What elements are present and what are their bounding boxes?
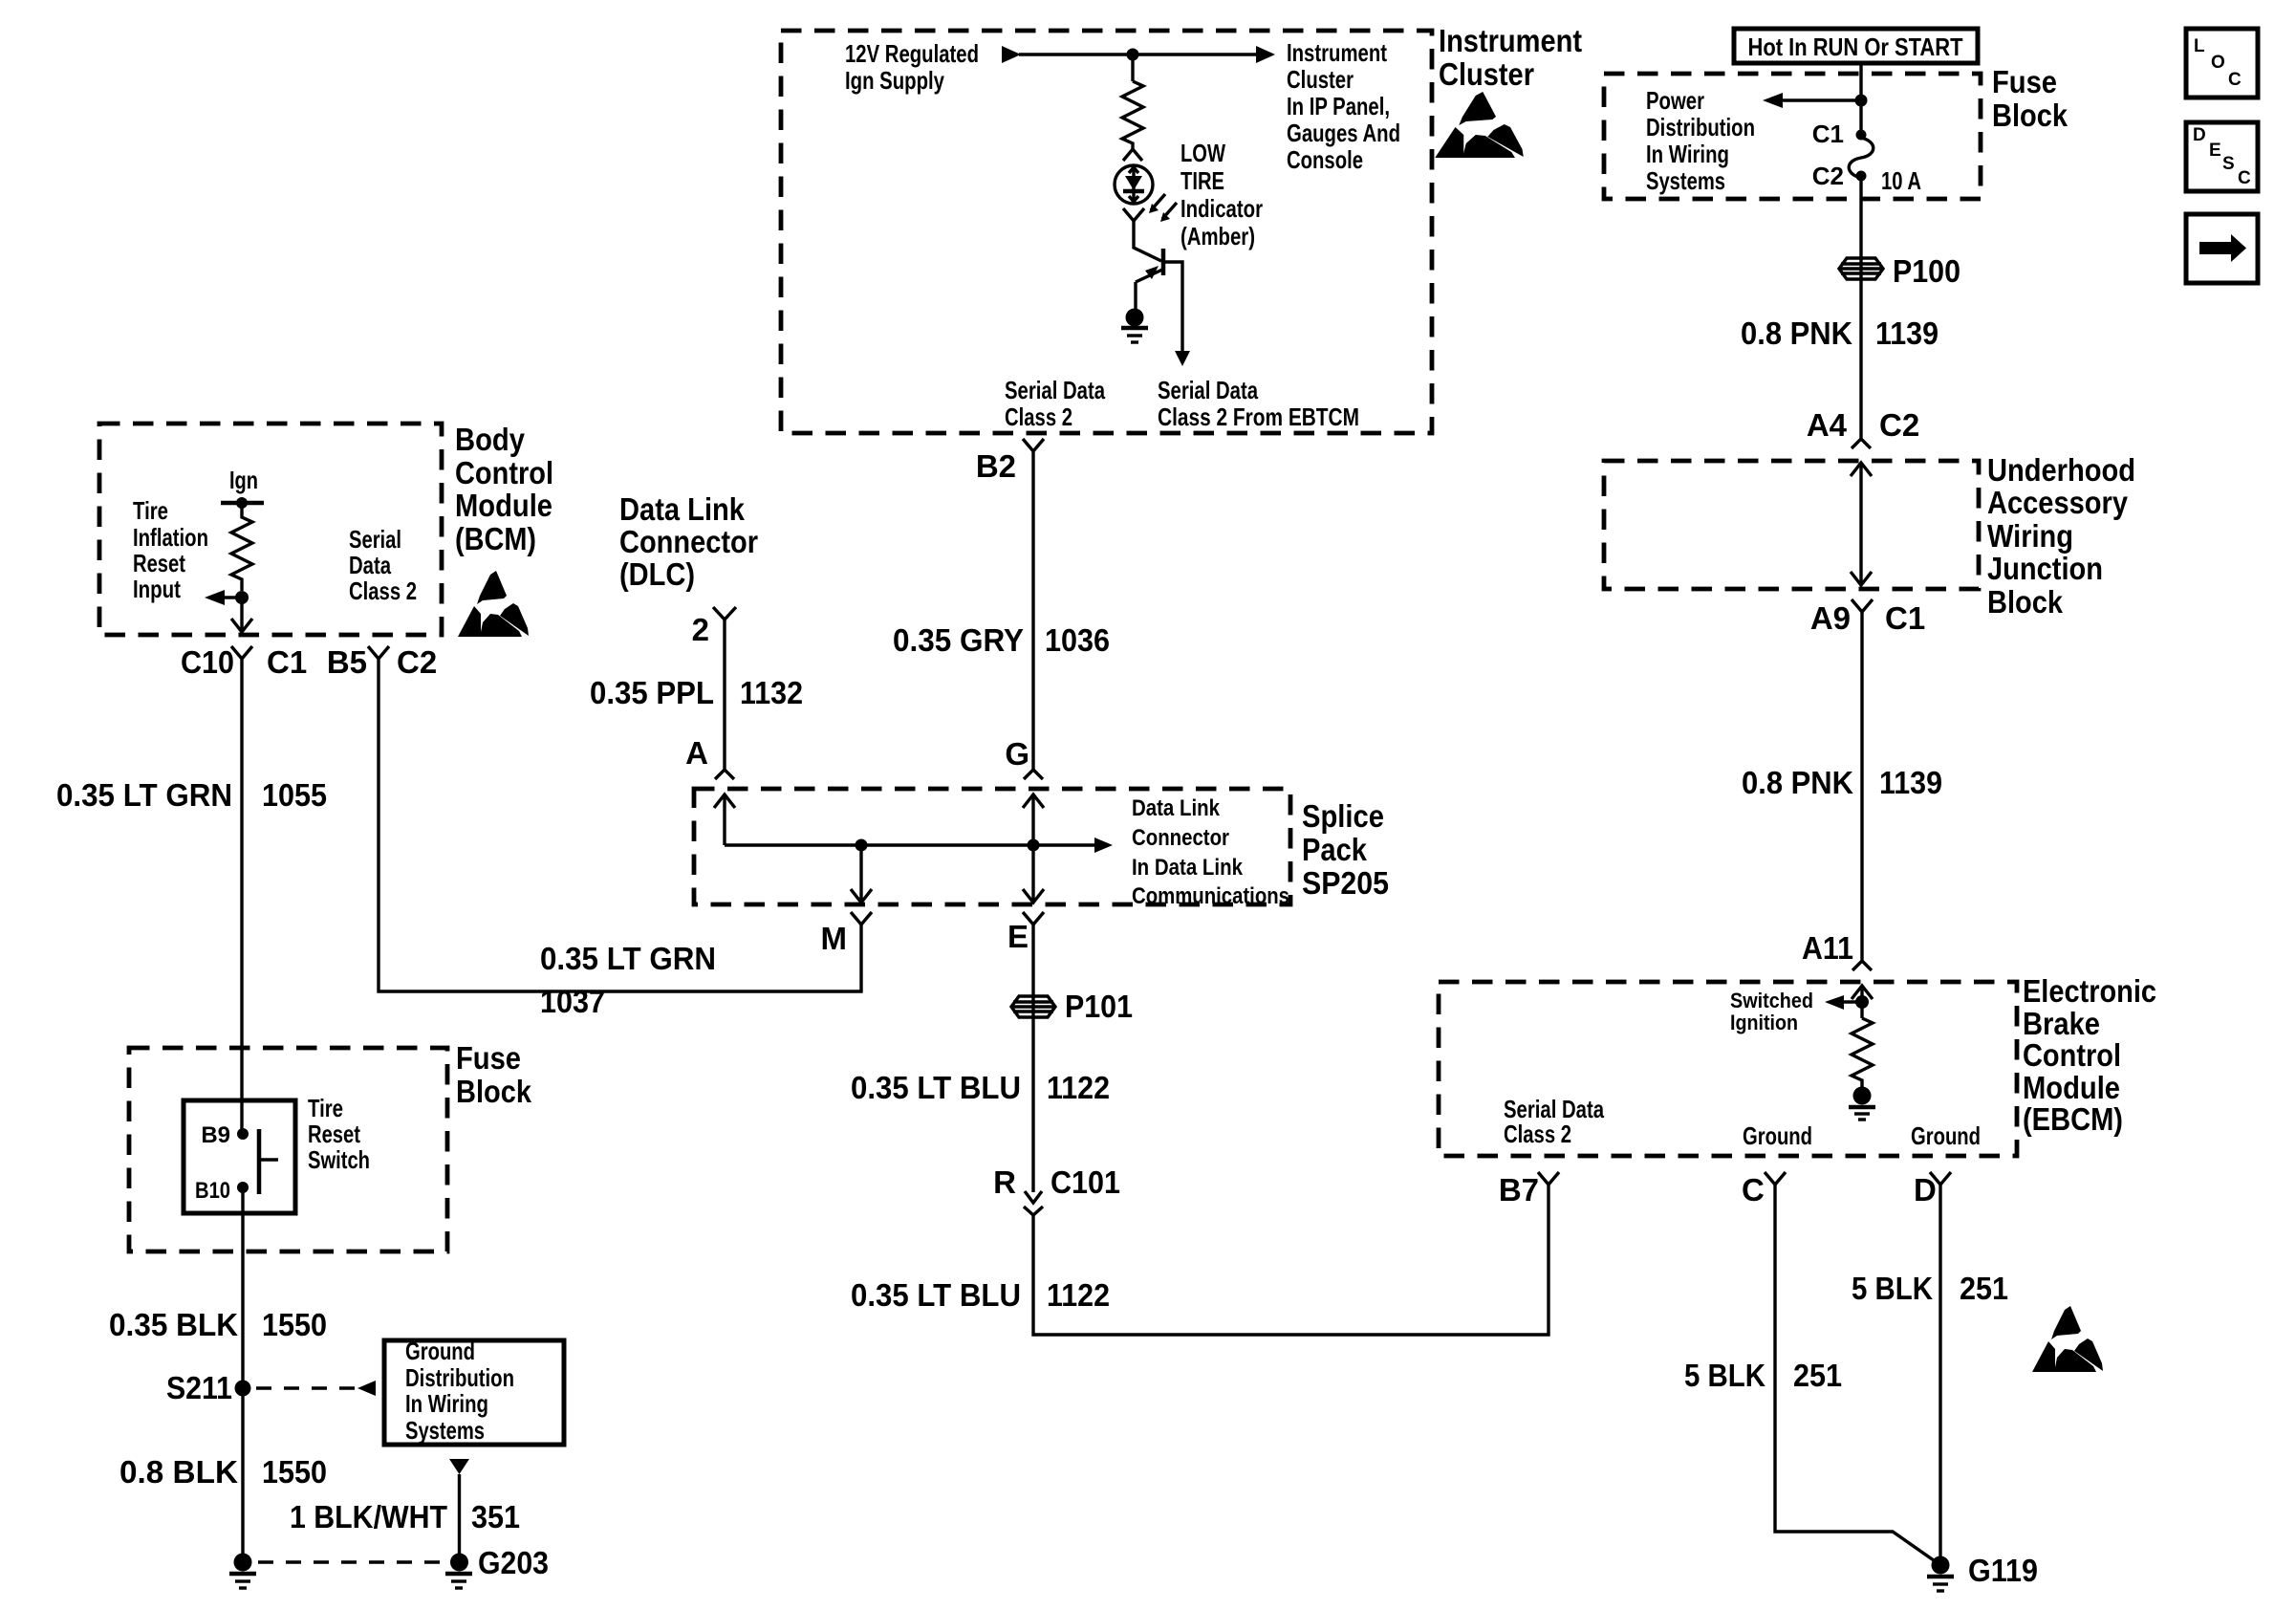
svg-text:1 BLK/WHT: 1 BLK/WHT <box>290 1499 447 1534</box>
wire B10 down to ground <box>241 1187 244 1556</box>
label: 5 BLK 251 (D) <box>1852 1271 2008 1306</box>
node: B10 terminal dot <box>237 1182 249 1193</box>
svg-text:0.35 LT GRN: 0.35 LT GRN <box>56 777 232 813</box>
open arrow up at G inside splice <box>1023 794 1044 903</box>
svg-text:Ign Supply: Ign Supply <box>845 66 944 95</box>
svg-text:P100: P100 <box>1893 253 1960 289</box>
svg-text:Class 2: Class 2 <box>349 577 417 605</box>
svg-text:In Wiring: In Wiring <box>405 1389 488 1418</box>
dashed reference S211 to ground distribution <box>256 1381 376 1396</box>
wire: emitter to ground <box>1134 282 1137 310</box>
svg-text:0.35 LT GRN: 0.35 LT GRN <box>540 941 716 976</box>
label: Data Link Connector (DLC) title <box>619 491 758 592</box>
svg-text:P101: P101 <box>1065 989 1133 1024</box>
fuse block (top) box <box>1604 74 1981 199</box>
connector legs above LED <box>1123 149 1142 161</box>
wire: 12V supply line <box>1019 53 1258 55</box>
connector Y at B7 <box>1538 1172 1559 1185</box>
wire to G203 <box>458 1474 461 1556</box>
arrow down from ground distribution box <box>449 1459 469 1474</box>
svg-text:Block: Block <box>456 1074 532 1109</box>
svg-text:Module: Module <box>455 488 552 523</box>
node: B9 terminal dot <box>237 1128 249 1140</box>
ESD symbol (EBCM) <box>2032 1306 2103 1372</box>
svg-text:10 A: 10 A <box>1881 166 1921 195</box>
svg-text:Ground: Ground <box>1911 1121 1981 1150</box>
wire fuse to A4 <box>1859 176 1862 439</box>
svg-text:Splice: Splice <box>1302 798 1384 834</box>
arrow left to Power Distribution <box>1763 93 1861 108</box>
wire B2 to splice pack G <box>1031 451 1034 770</box>
svg-text:C1: C1 <box>1885 600 1925 636</box>
svg-text:(EBCM): (EBCM) <box>2023 1101 2123 1137</box>
svg-text:E: E <box>1007 919 1029 954</box>
svg-text:Data Link: Data Link <box>619 491 746 527</box>
node: C1 dot <box>1856 130 1867 141</box>
label: 0.8 BLK 1550 <box>119 1454 327 1490</box>
wire: M branch down <box>859 845 862 903</box>
svg-text:LOW: LOW <box>1180 139 1225 167</box>
svg-text:Fuse: Fuse <box>1992 64 2057 99</box>
wire A9 down to EBCM A11 <box>1860 612 1863 961</box>
resistor (EBCM) <box>1852 1018 1873 1088</box>
svg-text:B10: B10 <box>195 1178 230 1204</box>
label: Serial Data Class 2 (EBCM) <box>1504 1095 1604 1148</box>
ESD symbol (BCM) <box>458 571 529 637</box>
label: 0.8 PNK 1139 lower <box>1742 765 1942 800</box>
label: 0.35 LT GRN 1055 <box>56 777 327 813</box>
svg-text:Cluster: Cluster <box>1287 65 1354 94</box>
svg-text:Indicator: Indicator <box>1180 194 1263 223</box>
svg-text:Block: Block <box>1987 584 2064 620</box>
ESD symbol (instrument cluster) <box>1435 92 1524 158</box>
wire D to G119 <box>1939 1185 1941 1565</box>
forward arrow legend box <box>2186 214 2258 283</box>
svg-text:G119: G119 <box>1968 1553 2038 1588</box>
connector Y at D <box>1930 1172 1951 1185</box>
svg-text:Gauges And: Gauges And <box>1287 119 1400 147</box>
splice bus wire <box>725 843 1095 846</box>
svg-text:Class 2 From EBTCM: Class 2 From EBTCM <box>1158 402 1359 431</box>
connector C101 R labels <box>993 1164 1120 1200</box>
label: Power Distribution In Wiring Systems <box>1646 86 1755 195</box>
label: 0.35 LT BLU 1122 upper <box>851 1070 1110 1105</box>
svg-text:1132: 1132 <box>740 675 803 710</box>
connector Y below LED <box>1123 208 1144 221</box>
electronic brake control module box <box>1439 982 2017 1156</box>
label: Fuse Block title (top) <box>1992 64 2069 133</box>
connector P100 <box>1839 258 1883 279</box>
pin labels C10 C1 B5 C2 <box>181 644 437 680</box>
node: C2 dot <box>1856 171 1867 182</box>
svg-text:1122: 1122 <box>1047 1070 1110 1105</box>
connector legs at A11 entry <box>1852 961 1872 970</box>
label: 0.35 BLK 1550 <box>109 1307 327 1342</box>
label: LOW TIRE Indicator (Amber) <box>1180 139 1263 250</box>
svg-text:Wiring: Wiring <box>1987 518 2073 554</box>
svg-text:Communications: Communications <box>1132 883 1289 909</box>
ground (cluster internal) <box>1121 309 1148 343</box>
svg-text:Serial: Serial <box>349 525 401 554</box>
connector legs at A4 entry <box>1852 439 1871 448</box>
label: Fuse Block title (bottom) <box>456 1040 532 1109</box>
svg-text:2: 2 <box>692 612 709 647</box>
node: splice dot M <box>856 839 868 852</box>
arrow left to Tire Inflation Reset Input <box>205 590 242 605</box>
connector P101 <box>1011 996 1055 1017</box>
label: Body Control Module (BCM) title <box>455 422 553 556</box>
svg-text:1139: 1139 <box>1875 315 1939 351</box>
open arrow down at R <box>1025 1191 1042 1203</box>
svg-text:5 BLK: 5 BLK <box>1852 1271 1933 1306</box>
wire from hot box into fuse block <box>1859 63 1862 135</box>
svg-text:0.35 PPL: 0.35 PPL <box>590 675 714 710</box>
svg-text:0.35 BLK: 0.35 BLK <box>109 1307 238 1342</box>
svg-text:R: R <box>993 1164 1016 1200</box>
svg-text:Connector: Connector <box>1132 825 1229 851</box>
svg-text:C: C <box>1742 1172 1765 1207</box>
svg-text:Data: Data <box>349 551 391 579</box>
svg-text:1550: 1550 <box>262 1454 327 1490</box>
svg-text:Serial Data: Serial Data <box>1005 376 1105 404</box>
svg-text:Serial Data: Serial Data <box>1158 376 1258 404</box>
svg-text:(Amber): (Amber) <box>1180 222 1255 250</box>
svg-text:Systems: Systems <box>405 1416 485 1445</box>
node: splice dot G/E <box>1028 839 1040 852</box>
svg-text:SP205: SP205 <box>1302 865 1389 901</box>
svg-text:O: O <box>2211 53 2225 73</box>
svg-text:Instrument: Instrument <box>1287 38 1387 67</box>
svg-text:In Data Link: In Data Link <box>1132 855 1244 881</box>
svg-text:Power: Power <box>1646 86 1704 115</box>
svg-text:Control: Control <box>2023 1037 2121 1073</box>
svg-text:L: L <box>2194 36 2205 56</box>
svg-text:Distribution: Distribution <box>1646 113 1755 141</box>
connector legs at G entry <box>1024 770 1043 779</box>
connector Y at B2 <box>1023 439 1044 451</box>
node: fuse feed dot <box>1855 95 1868 107</box>
open arrow down at M <box>851 889 872 903</box>
svg-text:B9: B9 <box>201 1122 230 1148</box>
label: 0.8 PNK 1139 upper <box>1741 315 1939 351</box>
svg-text:Block: Block <box>1992 98 2069 133</box>
wire B5 down and right to M <box>379 659 861 991</box>
svg-text:Systems: Systems <box>1646 166 1725 195</box>
label: Splice Pack SP205 title <box>1302 798 1389 901</box>
svg-text:5 BLK: 5 BLK <box>1684 1358 1765 1393</box>
label: Tire Inflation Reset Input <box>133 496 208 603</box>
svg-text:Accessory: Accessory <box>1987 485 2129 520</box>
svg-text:(BCM): (BCM) <box>455 521 536 556</box>
label: Serial Data Class 2 (BCM) <box>349 525 417 605</box>
svg-text:Console: Console <box>1287 145 1363 174</box>
svg-text:0.35 LT BLU: 0.35 LT BLU <box>851 1277 1021 1313</box>
dashed ground tie line <box>258 1560 444 1563</box>
label: Switched Ignition <box>1730 989 1813 1034</box>
underhood accessory wiring junction block box <box>1604 461 1979 589</box>
svg-text:E: E <box>2209 141 2221 161</box>
svg-text:C10: C10 <box>181 644 234 680</box>
svg-text:1055: 1055 <box>262 777 327 813</box>
wire C to G119 <box>1775 1185 1940 1565</box>
resistor (BCM pull-up) <box>231 503 252 591</box>
connector Y at A9 <box>1852 599 1873 612</box>
wire: dot down to resistor <box>1131 54 1134 81</box>
svg-text:0.8 BLK: 0.8 BLK <box>119 1454 238 1490</box>
label: Electronic Brake Control Module (EBCM) title <box>2023 973 2156 1137</box>
svg-text:Distribution: Distribution <box>405 1363 514 1392</box>
svg-text:Tire: Tire <box>133 496 168 525</box>
svg-text:251: 251 <box>1960 1271 2008 1306</box>
svg-text:1122: 1122 <box>1047 1277 1110 1313</box>
svg-text:Junction: Junction <box>1987 551 2103 586</box>
arrow right at bus end <box>1094 838 1113 853</box>
label: Serial Data Class 2 (cluster) <box>1005 376 1105 431</box>
connector Y at M exit <box>851 912 872 925</box>
Ign terminal stub <box>221 501 264 506</box>
svg-text:TIRE: TIRE <box>1180 166 1224 195</box>
open arrow down at E <box>1023 889 1044 903</box>
svg-text:M: M <box>821 921 848 956</box>
svg-text:Tire: Tire <box>308 1094 343 1122</box>
arrow right at supply end <box>1256 46 1275 63</box>
connector Y at B5 <box>368 646 389 659</box>
wire E down to P101 <box>1031 925 1034 1192</box>
svg-text:Ign: Ign <box>229 466 258 494</box>
svg-text:A11: A11 <box>1802 930 1853 966</box>
pin labels A9 C1 <box>1810 600 1925 636</box>
svg-text:C: C <box>2228 70 2242 90</box>
label: Ground Distribution In Wiring Systems <box>405 1337 514 1445</box>
svg-text:C1: C1 <box>1812 120 1844 148</box>
LED indicator lamp <box>1115 165 1153 204</box>
label: 5 BLK 251 (C) <box>1684 1358 1842 1393</box>
node: Ign dot <box>236 497 248 509</box>
instrument cluster box <box>781 31 1432 433</box>
LOC legend box <box>2186 29 2258 98</box>
svg-text:B7: B7 <box>1499 1172 1539 1207</box>
svg-text:Cluster: Cluster <box>1439 56 1534 92</box>
label: 0.35 LT GRN 1037 <box>540 941 716 1019</box>
svg-text:C1: C1 <box>267 644 307 680</box>
svg-text:C: C <box>2238 168 2251 188</box>
label: 1 BLK/WHT 351 <box>290 1499 520 1534</box>
switch contact lever <box>259 1129 278 1194</box>
node: BCM junction dot <box>235 591 249 604</box>
svg-text:Hot In RUN Or START: Hot In RUN Or START <box>1748 33 1963 61</box>
svg-text:(DLC): (DLC) <box>619 556 695 592</box>
svg-text:Body: Body <box>455 422 526 457</box>
arrow right at supply start <box>1002 46 1021 63</box>
open arrow down at junction block bottom <box>1851 572 1872 585</box>
svg-text:0.35 LT BLU: 0.35 LT BLU <box>851 1070 1021 1105</box>
svg-text:D: D <box>2193 125 2206 145</box>
label: 12V Regulated Ign Supply <box>845 39 979 95</box>
svg-text:Reset: Reset <box>133 549 185 577</box>
svg-text:0.8 PNK: 0.8 PNK <box>1741 315 1852 351</box>
svg-text:Module: Module <box>2023 1070 2120 1105</box>
svg-text:Instrument: Instrument <box>1439 23 1582 58</box>
svg-text:351: 351 <box>471 1499 520 1534</box>
svg-text:Ignition: Ignition <box>1730 1011 1798 1034</box>
svg-text:G: G <box>1005 736 1029 772</box>
wire through junction block <box>1859 463 1862 585</box>
ground G203 <box>445 1554 472 1589</box>
svg-text:12V Regulated: 12V Regulated <box>845 39 979 68</box>
svg-text:1139: 1139 <box>1879 765 1942 800</box>
svg-text:A9: A9 <box>1810 600 1851 636</box>
svg-text:C2: C2 <box>1812 162 1844 190</box>
svg-text:Electronic: Electronic <box>2023 973 2156 1009</box>
svg-text:Inflation: Inflation <box>133 523 208 552</box>
svg-text:S: S <box>2222 154 2235 174</box>
wire: LED to transistor base <box>1134 221 1161 261</box>
pin labels A4 C2 <box>1807 407 1919 443</box>
label: Data Link Connector In Data Link Communications <box>1132 795 1289 909</box>
fuse 10A element <box>1849 138 1874 178</box>
svg-text:0.8 PNK: 0.8 PNK <box>1742 765 1853 800</box>
wire C10 down to tire reset switch <box>240 659 243 1134</box>
svg-text:1550: 1550 <box>262 1307 327 1342</box>
open arrow up at A inside splice <box>714 794 735 845</box>
svg-text:Reset: Reset <box>308 1120 360 1148</box>
svg-text:Switched: Switched <box>1730 989 1813 1012</box>
DESC legend box <box>2186 122 2258 191</box>
ground (left, S211 wire) <box>229 1554 256 1589</box>
svg-text:B2: B2 <box>976 448 1016 484</box>
svg-text:In Wiring: In Wiring <box>1646 140 1729 168</box>
connector legs at A entry <box>715 770 734 779</box>
svg-text:A: A <box>685 735 708 771</box>
splice pack SP205 box <box>694 789 1290 904</box>
svg-text:D: D <box>1914 1172 1937 1207</box>
node: EBCM junction dot <box>1855 995 1869 1009</box>
ground G119 <box>1927 1556 1954 1592</box>
svg-text:Class 2: Class 2 <box>1005 402 1072 431</box>
label: Tire Reset Switch <box>308 1094 370 1174</box>
wire: junction down with chevron <box>240 598 243 631</box>
svg-text:Control: Control <box>455 455 553 490</box>
open arrow down (to C10) <box>231 619 252 632</box>
svg-text:B5: B5 <box>327 644 367 680</box>
wire DLC 2 to splice pack A <box>723 620 726 770</box>
svg-text:0.35 GRY: 0.35 GRY <box>893 622 1024 658</box>
connector Y at C10 <box>231 646 252 659</box>
transistor Q (cluster driver) <box>1136 249 1190 366</box>
LED light rays <box>1149 194 1177 222</box>
svg-text:C101: C101 <box>1051 1164 1120 1200</box>
svg-text:A4: A4 <box>1807 407 1848 443</box>
svg-text:251: 251 <box>1793 1358 1842 1393</box>
svg-text:G203: G203 <box>478 1545 549 1580</box>
svg-text:Fuse: Fuse <box>456 1040 521 1076</box>
svg-text:Data Link: Data Link <box>1132 795 1221 821</box>
label: Instrument Cluster In IP Panel Gauges And Console <box>1287 38 1400 174</box>
ground distribution box <box>384 1340 564 1445</box>
label: Serial Data Class 2 From EBTCM <box>1158 376 1359 431</box>
svg-text:Connector: Connector <box>619 524 758 559</box>
label: Underhood Accessory Wiring Junction Block title <box>1987 452 2135 620</box>
open arrow up at junction block top <box>1851 463 1872 476</box>
label: Instrument Cluster title <box>1439 23 1582 92</box>
svg-text:1036: 1036 <box>1045 622 1110 658</box>
open arrow up at EBCM entry <box>1852 986 1873 1018</box>
svg-text:Input: Input <box>133 575 181 603</box>
body control module box <box>99 424 442 635</box>
svg-text:C2: C2 <box>397 644 437 680</box>
node: splice S211 <box>235 1381 251 1397</box>
connector Y at C101 <box>1024 1207 1043 1215</box>
svg-text:S211: S211 <box>166 1370 232 1405</box>
tire reset switch box <box>184 1100 295 1213</box>
svg-text:Class 2: Class 2 <box>1504 1120 1571 1148</box>
ground (EBCM internal) <box>1849 1087 1875 1120</box>
svg-text:Brake: Brake <box>2023 1006 2100 1041</box>
label: 0.35 LT BLU 1122 lower <box>851 1277 1110 1313</box>
fuse block (bottom) box <box>129 1048 447 1251</box>
connector Y at E exit <box>1023 912 1044 925</box>
svg-text:Pack: Pack <box>1302 832 1368 867</box>
arrow left to Switched Ignition <box>1825 995 1862 1010</box>
Hot In RUN Or START box <box>1734 29 1978 63</box>
svg-text:Ground: Ground <box>405 1337 475 1365</box>
svg-text:Switch: Switch <box>308 1145 370 1174</box>
svg-text:Ground: Ground <box>1743 1121 1812 1150</box>
resistor (cluster indicator) <box>1122 81 1143 149</box>
svg-text:1037: 1037 <box>540 984 605 1019</box>
wire C101 down right and up to B7 <box>1033 1185 1549 1335</box>
label: 0.35 PPL 1132 <box>590 675 803 710</box>
connector Y at DLC pin 2 <box>713 607 736 620</box>
svg-text:C2: C2 <box>1879 407 1919 443</box>
svg-text:Underhood: Underhood <box>1987 452 2135 488</box>
node: supply junction dot <box>1127 49 1139 61</box>
connector Y at C <box>1765 1172 1786 1185</box>
label: 0.35 GRY 1036 <box>893 622 1110 658</box>
svg-text:In IP Panel,: In IP Panel, <box>1287 92 1390 120</box>
